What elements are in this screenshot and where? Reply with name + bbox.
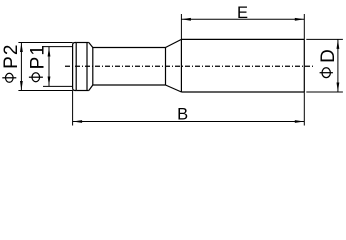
- cone bottom: [166, 85, 182, 92]
- arrow E left: [181, 18, 191, 21]
- body bottom edge: [181, 91, 304, 93]
- release button cap: [73, 43, 77, 91]
- dim D line: [337, 39, 339, 92]
- cap bottom edge: [76, 90, 89, 92]
- dim E line: [181, 18, 304, 20]
- svg-text:D: D: [318, 49, 339, 63]
- label phi-P2: [1, 44, 22, 83]
- arrow D bottom: [337, 83, 340, 93]
- dim E extension right: [303, 14, 305, 39]
- button/collar boundary: [86, 43, 88, 91]
- svg-text:E: E: [237, 4, 248, 22]
- dim B line: [73, 121, 305, 123]
- cone/body boundary: [180, 39, 182, 92]
- arrow P1 bottom: [48, 77, 51, 87]
- arrow P2 top: [20, 43, 23, 53]
- dim P2 extension top: [18, 42, 72, 44]
- body top edge: [181, 38, 304, 40]
- arrow P1 top: [48, 47, 51, 57]
- dim P1 extension top: [43, 46, 73, 48]
- arrow B right: [295, 120, 305, 123]
- arrowheads: [20, 18, 339, 123]
- dimension lines: [18, 14, 343, 126]
- collar/tube boundary: [92, 48, 94, 86]
- tube bottom edge: [93, 84, 166, 86]
- tube top edge: [93, 47, 166, 49]
- svg-text:P2: P2: [1, 44, 22, 69]
- button lip line: [75, 43, 77, 91]
- dim D extension top: [306, 38, 343, 40]
- dim P2 extension bottom: [18, 90, 72, 92]
- collar bottom chamfer: [89, 85, 93, 91]
- dim D extension bottom: [306, 91, 343, 93]
- tube end face: [165, 48, 167, 86]
- collar top chamfer: [89, 43, 93, 48]
- svg-text:B: B: [177, 106, 188, 124]
- dim B extension right: [303, 92, 305, 126]
- dim P1 line: [48, 47, 50, 86]
- centerline (dash-dot axis): [65, 65, 314, 67]
- arrow B left: [73, 120, 83, 123]
- dim E extension left: [180, 14, 182, 39]
- dim B extension left: [72, 91, 74, 126]
- cap top edge: [76, 42, 89, 44]
- cone top: [166, 39, 182, 47]
- fitting body outline: [73, 39, 305, 92]
- arrow P2 bottom: [20, 81, 23, 91]
- svg-text:P1: P1: [28, 44, 49, 69]
- body right face: [303, 39, 305, 92]
- arrow E right: [295, 18, 305, 21]
- dim P2 line: [20, 43, 22, 91]
- label phi-D: [318, 49, 339, 77]
- arrow D top: [337, 39, 340, 49]
- label phi-P1: [28, 44, 49, 82]
- dim P1 extension bottom: [43, 85, 73, 87]
